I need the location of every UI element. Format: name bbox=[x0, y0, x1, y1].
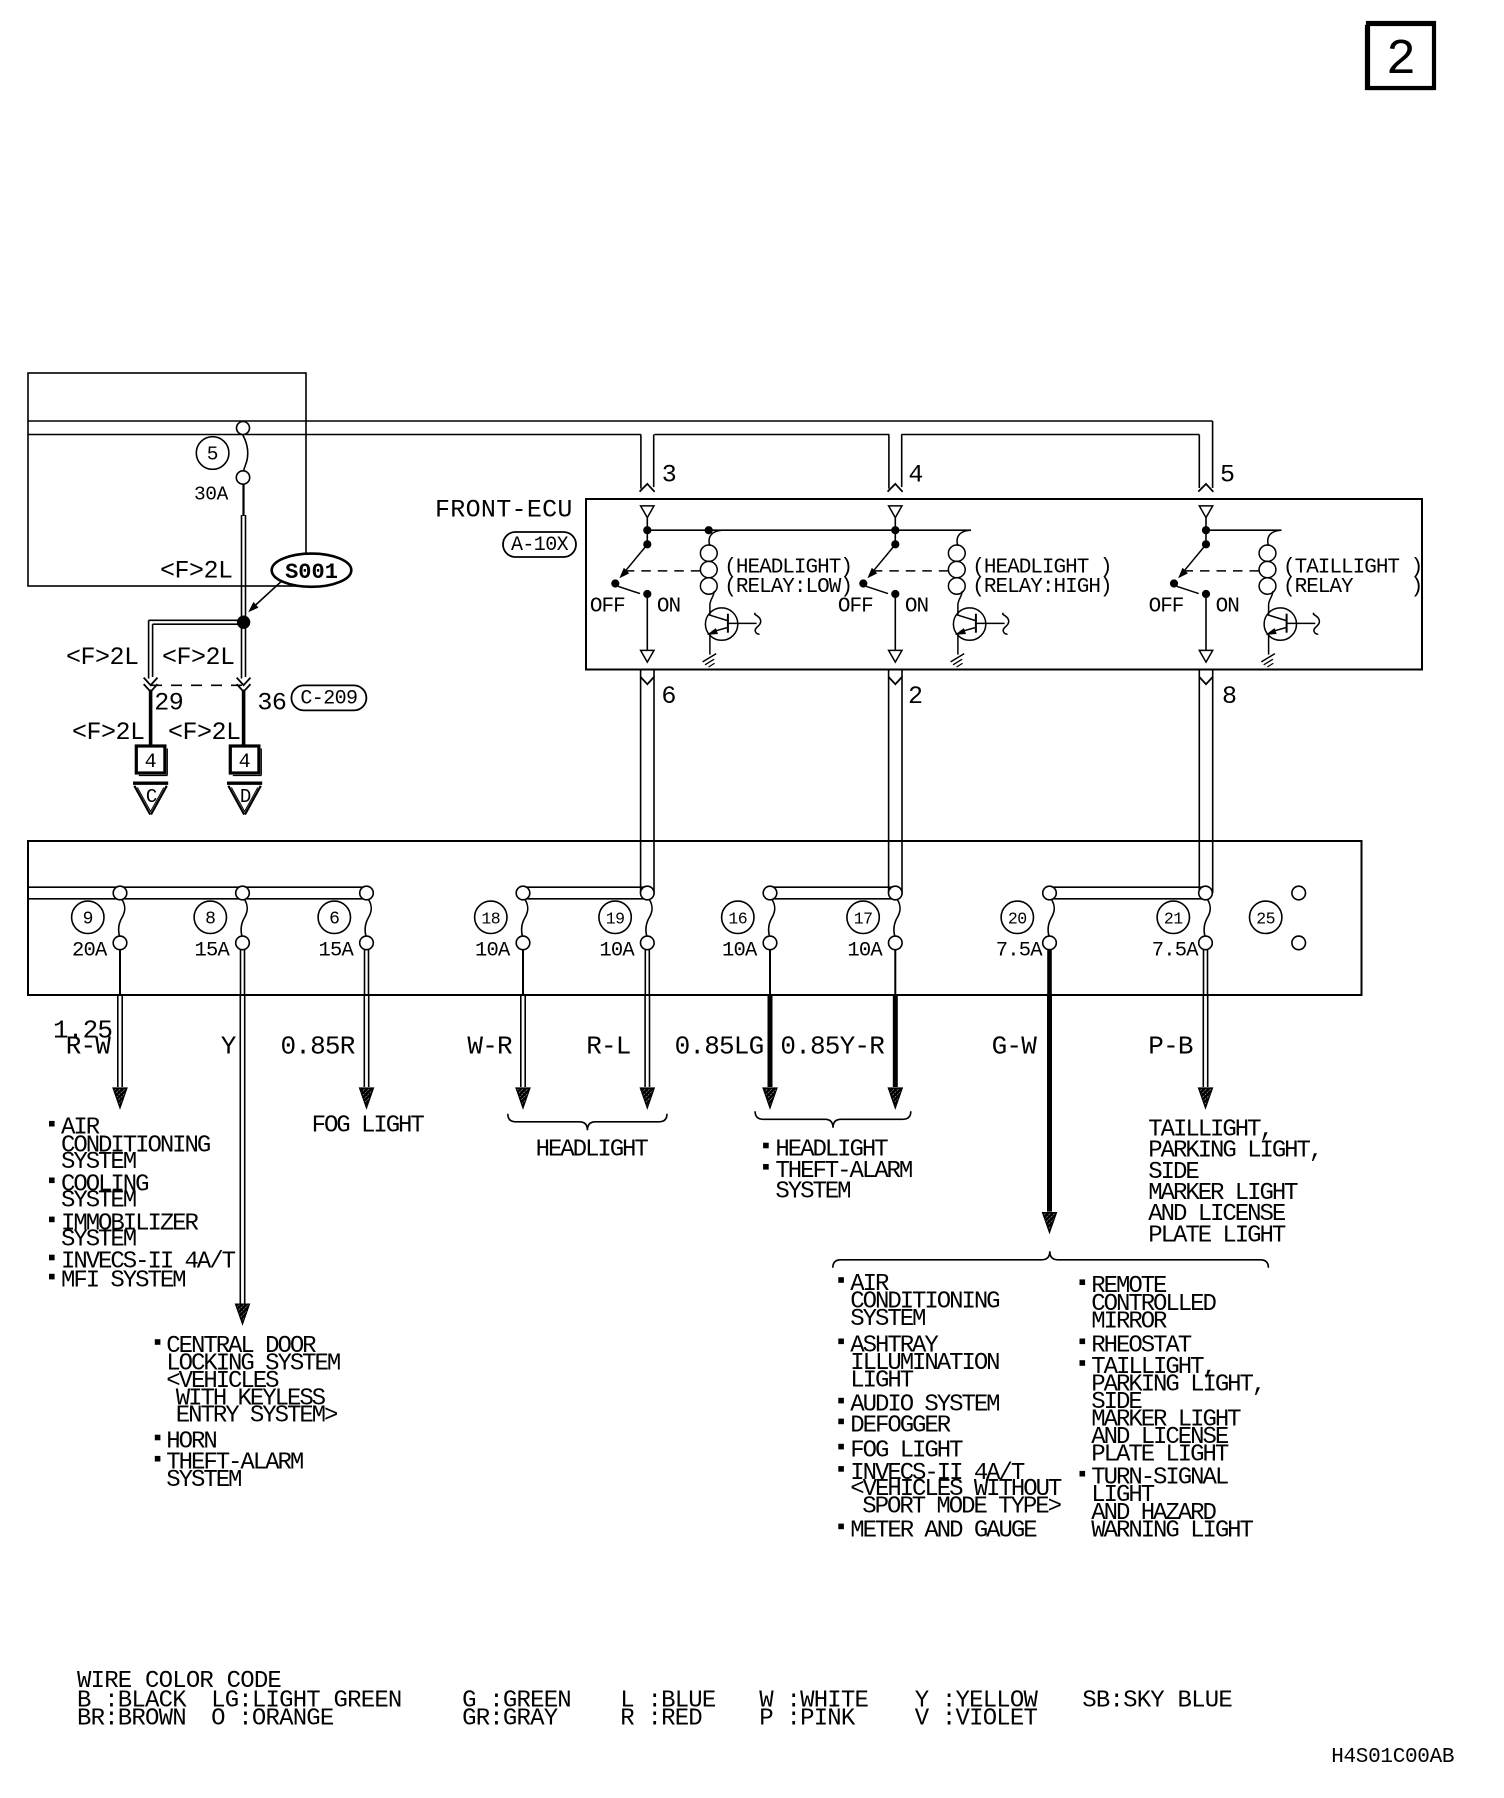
svg-text:7.5A: 7.5A bbox=[1152, 940, 1200, 963]
svg-text:R-W: R-W bbox=[66, 1031, 112, 1061]
svg-text:SPORT MODE TYPE>: SPORT MODE TYPE> bbox=[862, 1493, 1061, 1520]
svg-text:25: 25 bbox=[1256, 909, 1275, 928]
svg-text:D: D bbox=[240, 786, 251, 808]
svg-text:METER AND GAUGE: METER AND GAUGE bbox=[850, 1517, 1037, 1544]
svg-text:R-L: R-L bbox=[586, 1031, 630, 1061]
svg-text:SYSTEM: SYSTEM bbox=[850, 1306, 925, 1333]
svg-text:<F>2L: <F>2L bbox=[72, 718, 145, 747]
svg-text:4: 4 bbox=[145, 751, 157, 774]
svg-text:20: 20 bbox=[1008, 909, 1027, 928]
svg-text:17: 17 bbox=[854, 909, 873, 928]
svg-text:H4S01C00AB: H4S01C00AB bbox=[1331, 1746, 1454, 1769]
svg-text:W-R: W-R bbox=[467, 1031, 512, 1061]
svg-text:15A: 15A bbox=[195, 940, 231, 963]
svg-text:21: 21 bbox=[1164, 909, 1183, 928]
svg-text:10A: 10A bbox=[847, 940, 883, 963]
svg-text:10A: 10A bbox=[599, 940, 635, 963]
svg-text:<F>2L: <F>2L bbox=[66, 643, 139, 672]
svg-text:FRONT-ECU: FRONT-ECU bbox=[435, 495, 573, 524]
svg-text:(RELAY ): (RELAY ) bbox=[1283, 576, 1422, 599]
svg-text:C-209: C-209 bbox=[300, 687, 357, 710]
svg-text:ENTRY SYSTEM>: ENTRY SYSTEM> bbox=[176, 1403, 338, 1430]
svg-text:LIGHT: LIGHT bbox=[850, 1367, 913, 1394]
svg-text:<F>2L: <F>2L bbox=[162, 643, 235, 672]
svg-text:MFI SYSTEM: MFI SYSTEM bbox=[61, 1268, 185, 1295]
svg-text:4: 4 bbox=[239, 751, 251, 774]
svg-text:20A: 20A bbox=[72, 940, 108, 963]
svg-text:<F>2L: <F>2L bbox=[160, 557, 233, 586]
svg-text:OFF: OFF bbox=[590, 596, 625, 619]
svg-text:2: 2 bbox=[1386, 32, 1416, 89]
svg-text:(RELAY:LOW): (RELAY:LOW) bbox=[724, 576, 852, 599]
svg-text:ON: ON bbox=[657, 596, 680, 619]
svg-text:36: 36 bbox=[257, 688, 286, 717]
svg-text:18: 18 bbox=[481, 909, 500, 928]
svg-text:2: 2 bbox=[908, 682, 923, 711]
svg-text:8: 8 bbox=[1222, 682, 1237, 711]
svg-text:A-10X: A-10X bbox=[511, 534, 569, 557]
svg-text:WARNING LIGHT: WARNING LIGHT bbox=[1091, 1517, 1253, 1544]
svg-text:29: 29 bbox=[154, 688, 183, 717]
svg-text:7.5A: 7.5A bbox=[996, 940, 1044, 963]
svg-text:SYSTEM: SYSTEM bbox=[166, 1467, 241, 1494]
svg-text:GR:GRAY: GR:GRAY bbox=[462, 1705, 558, 1732]
svg-text:SYSTEM: SYSTEM bbox=[775, 1179, 850, 1206]
svg-text:30A: 30A bbox=[194, 484, 229, 506]
svg-text:HEADLIGHT: HEADLIGHT bbox=[536, 1137, 649, 1164]
svg-text:DEFOGGER: DEFOGGER bbox=[850, 1412, 950, 1439]
svg-text:V :VIOLET: V :VIOLET bbox=[915, 1705, 1038, 1732]
svg-text:Y: Y bbox=[221, 1031, 237, 1061]
svg-text:PLATE LIGHT: PLATE LIGHT bbox=[1148, 1222, 1286, 1249]
svg-text:6: 6 bbox=[329, 909, 339, 929]
svg-text:MIRROR: MIRROR bbox=[1091, 1308, 1167, 1335]
svg-text:6: 6 bbox=[661, 682, 676, 711]
svg-text:O :ORANGE: O :ORANGE bbox=[211, 1705, 334, 1732]
svg-text:P-B: P-B bbox=[1148, 1031, 1193, 1061]
svg-text:10A: 10A bbox=[722, 940, 758, 963]
svg-text:0.85LG: 0.85LG bbox=[675, 1031, 764, 1061]
svg-text:9: 9 bbox=[83, 909, 93, 929]
svg-text:5: 5 bbox=[1220, 461, 1235, 490]
svg-text:5: 5 bbox=[207, 443, 219, 465]
svg-text:G-W: G-W bbox=[992, 1031, 1038, 1061]
svg-text:S001: S001 bbox=[285, 560, 338, 585]
svg-text:10A: 10A bbox=[475, 940, 511, 963]
svg-text:<F>2L: <F>2L bbox=[168, 718, 241, 747]
svg-text:ON: ON bbox=[1216, 596, 1239, 619]
svg-text:OFF: OFF bbox=[838, 596, 873, 619]
svg-text:FOG LIGHT: FOG LIGHT bbox=[312, 1113, 425, 1140]
svg-text:0.85Y-R: 0.85Y-R bbox=[780, 1031, 884, 1061]
svg-text:SB:SKY BLUE: SB:SKY BLUE bbox=[1082, 1687, 1232, 1714]
svg-text:C: C bbox=[146, 786, 157, 808]
svg-text:P :PINK: P :PINK bbox=[759, 1705, 856, 1732]
svg-text:0.85R: 0.85R bbox=[281, 1031, 355, 1061]
svg-text:BR:BROWN: BR:BROWN bbox=[77, 1705, 186, 1732]
svg-text:15A: 15A bbox=[319, 940, 355, 963]
svg-text:OFF: OFF bbox=[1149, 596, 1184, 619]
svg-text:8: 8 bbox=[205, 909, 215, 929]
svg-text:3: 3 bbox=[662, 461, 677, 490]
svg-text:19: 19 bbox=[606, 909, 625, 928]
svg-text:16: 16 bbox=[728, 909, 747, 928]
svg-text:R :RED: R :RED bbox=[620, 1705, 702, 1732]
svg-text:ON: ON bbox=[905, 596, 928, 619]
svg-text:(RELAY:HIGH): (RELAY:HIGH) bbox=[972, 576, 1111, 599]
svg-text:4: 4 bbox=[908, 461, 923, 490]
